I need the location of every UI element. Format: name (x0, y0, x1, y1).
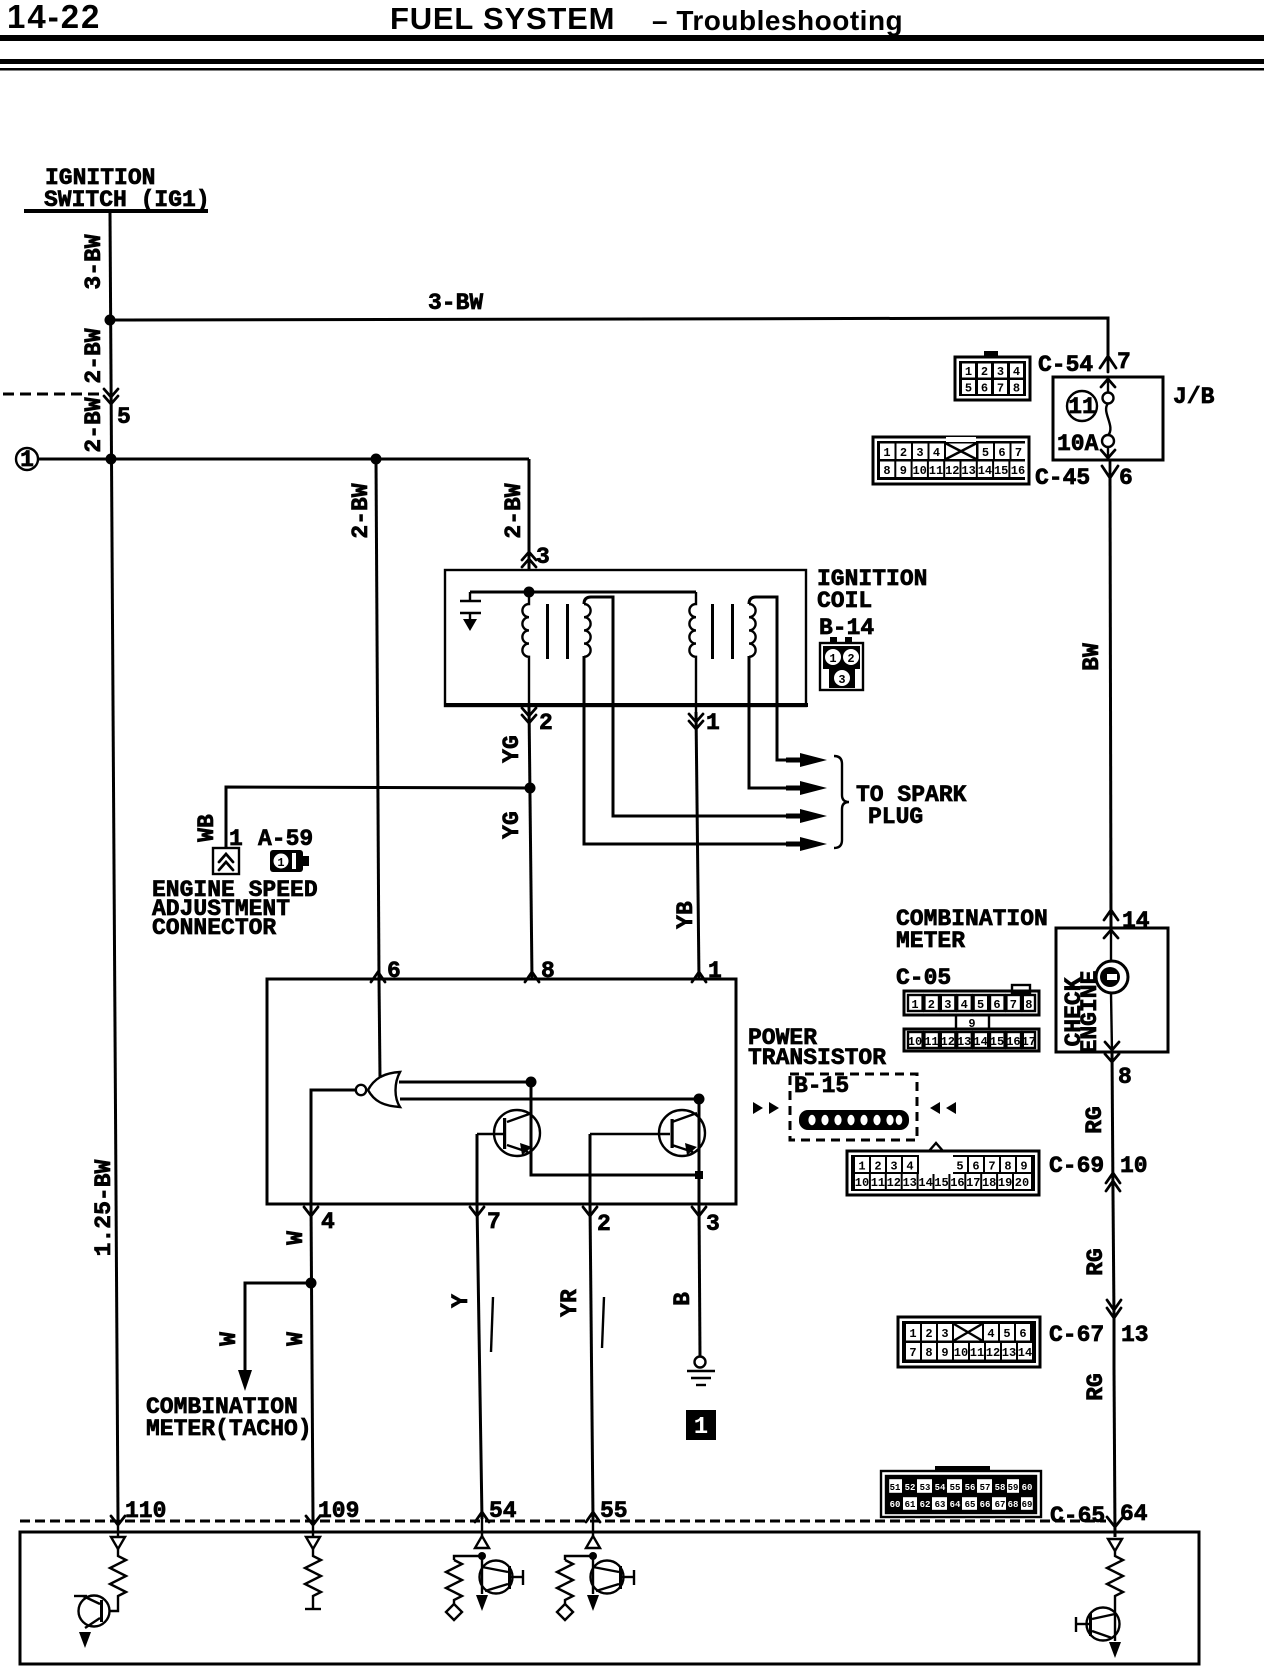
wire: pin 55 node to R4 (565, 1556, 593, 1560)
connector C-54 (955, 351, 1030, 400)
ECU pin 110 input: triangle (111, 1537, 125, 1549)
wire: YR from pin 2 to ECU pin 55 (590, 1204, 593, 1519)
svg-text:2-BW: 2-BW (348, 483, 374, 538)
svg-text:2: 2 (925, 1327, 932, 1341)
svg-text:11: 11 (871, 1176, 885, 1190)
transformer T1 core (546, 604, 549, 659)
svg-text:8: 8 (1118, 1064, 1132, 1090)
junction (2-BW branch) (371, 454, 382, 465)
fuse 11, 10A (1057, 377, 1115, 460)
wire: 2-BW down to ignition coil pin 3 (528, 459, 531, 570)
connector icon B-14 (820, 637, 863, 690)
wire: 2-BW branch down to power transistor pin 6 (376, 459, 379, 979)
svg-text:1: 1 (909, 1327, 916, 1341)
svg-text:METER(TACHO): METER(TACHO) (146, 1416, 312, 1442)
svg-text:15: 15 (994, 464, 1008, 478)
svg-text:FUEL SYSTEM: FUEL SYSTEM (390, 1, 615, 36)
svg-text:5: 5 (1003, 1327, 1010, 1341)
wire: RG from C-69 to C-67 (1113, 1195, 1114, 1317)
svg-text:64: 64 (1120, 1501, 1148, 1527)
tick (Y wire) (491, 1297, 493, 1352)
header rule 1 (0, 35, 1264, 41)
transistor Q1 (477, 1110, 540, 1156)
svg-text:1: 1 (694, 1414, 708, 1441)
svg-text:66: 66 (980, 1500, 991, 1510)
wire: common emitter to pin 3 (698, 1175, 701, 1204)
brace to spark plug (834, 756, 849, 848)
arrow to combination meter (tacho) (238, 1370, 252, 1391)
junction (left rail / 3-BW feed) (105, 315, 116, 326)
svg-text:BW: BW (1079, 643, 1105, 671)
connector icon B-15 (799, 1110, 909, 1130)
svg-text:3-BW: 3-BW (428, 290, 483, 316)
connector C-65 (881, 1466, 1041, 1517)
pin 2 marker (coil) (522, 708, 536, 716)
svg-text:61: 61 (905, 1500, 916, 1510)
svg-text:C-45: C-45 (1035, 465, 1090, 491)
junction (coil pin3 node) (524, 587, 535, 598)
logic gate U1 (NOR) (356, 1072, 400, 1107)
svg-text:17: 17 (966, 1176, 980, 1190)
wire: left rail 3-BW/2-BW/1.25-BW from ignition switch down to ECU pin 110 (110, 213, 118, 1519)
header rule 3 (0, 68, 1264, 71)
svg-text:C-65: C-65 (1050, 1503, 1105, 1529)
svg-text:1.25-BW: 1.25-BW (91, 1159, 117, 1256)
wire stub pin 109 (312, 1519, 314, 1537)
svg-text:10: 10 (855, 1176, 869, 1190)
svg-text:8: 8 (883, 464, 890, 478)
svg-text:64: 64 (950, 1500, 961, 1510)
svg-text:57: 57 (980, 1483, 991, 1493)
svg-text:B: B (670, 1292, 696, 1306)
svg-text:52: 52 (905, 1483, 916, 1493)
spark plug arrow 1 (800, 753, 827, 767)
svg-text:3: 3 (916, 446, 923, 460)
transformer T2 core (711, 604, 714, 659)
svg-text:2: 2 (928, 998, 935, 1012)
svg-text:6: 6 (1119, 465, 1133, 491)
node (1) terminal (16, 448, 38, 470)
svg-text:14: 14 (1122, 908, 1150, 934)
svg-text:1: 1 (277, 856, 284, 870)
power transistor unit box (267, 979, 736, 1204)
spark plug arrow 2 (800, 781, 827, 795)
wire stub pin 54 (481, 1519, 483, 1536)
wire: 2-BW horizontal from node 1 (38, 458, 529, 461)
svg-text:2: 2 (597, 1211, 611, 1237)
svg-text:16: 16 (950, 1176, 964, 1190)
wire: RG passing C-67 (1113, 1317, 1116, 1367)
svg-text:1: 1 (911, 998, 918, 1012)
svg-text:13: 13 (961, 464, 975, 478)
junction (W branch) (306, 1278, 317, 1289)
svg-text:A-59: A-59 (258, 826, 313, 852)
svg-text:7: 7 (909, 1346, 916, 1360)
wire: WB to engine speed adjustment connector (226, 787, 530, 848)
ignition switch (IG1) label (24, 165, 210, 213)
svg-text:2-BW: 2-BW (501, 483, 527, 538)
pin 10 marker (C-69) (1106, 1173, 1120, 1183)
svg-text:68: 68 (1008, 1500, 1019, 1510)
svg-text:2: 2 (900, 446, 907, 460)
pin 4 marker (bottom) (304, 1207, 318, 1216)
svg-text:6: 6 (387, 958, 401, 984)
svg-text:13: 13 (902, 1176, 916, 1190)
svg-text:11: 11 (1068, 394, 1096, 420)
svg-text:C-69: C-69 (1049, 1153, 1104, 1179)
svg-text:RG: RG (1082, 1106, 1108, 1134)
svg-text:5: 5 (117, 404, 131, 430)
dashed box B-15 (power transistor connector) (790, 1074, 917, 1140)
transformer T2 secondary winding (749, 604, 756, 657)
pin 55 marker (586, 1512, 600, 1522)
node 5 crossing marker (104, 389, 118, 397)
wire to Q3 (110, 1605, 118, 1611)
pin 2 marker (bottom) (583, 1207, 597, 1216)
wire: gate input A to YG (399, 1081, 531, 1084)
wire: lamp feed (1110, 928, 1112, 961)
wire: gate input B to YB (400, 1098, 699, 1101)
svg-text:13: 13 (957, 1035, 971, 1049)
junction (YG / engine speed connector tap) (525, 783, 536, 794)
pin 13 marker (C-67) (1107, 1300, 1121, 1310)
svg-text:7: 7 (487, 1209, 501, 1235)
pin 3 marker (bottom) (692, 1207, 706, 1216)
transistor Q3 (ECU, pin110) (74, 1596, 110, 1649)
svg-text:J/B: J/B (1173, 384, 1215, 410)
svg-text:14: 14 (1018, 1346, 1032, 1360)
svg-text:4: 4 (933, 446, 940, 460)
pin 3 marker (coil) (522, 552, 536, 560)
svg-text:B-15: B-15 (794, 1073, 849, 1099)
svg-text:1: 1 (858, 1160, 865, 1174)
ground (diamond, R3) (446, 1604, 462, 1620)
svg-text:55: 55 (950, 1483, 961, 1493)
svg-text:3-BW: 3-BW (81, 234, 107, 289)
svg-text:2: 2 (981, 365, 988, 379)
svg-text:8: 8 (1013, 382, 1020, 396)
svg-text:19: 19 (998, 1176, 1012, 1190)
svg-text:59: 59 (1008, 1483, 1019, 1493)
resistor R5 (1107, 1551, 1123, 1608)
svg-text:65: 65 (965, 1500, 976, 1510)
svg-text:12: 12 (887, 1176, 901, 1190)
chevron into meter box (1104, 930, 1118, 938)
transformer T1 secondary winding (584, 604, 591, 657)
wire stub pin 110 (117, 1519, 119, 1537)
resistor R3 (446, 1560, 462, 1604)
svg-text:10: 10 (954, 1346, 968, 1360)
svg-text:YB: YB (673, 901, 699, 929)
svg-text:PLUG: PLUG (868, 804, 923, 830)
combination meter box (1056, 928, 1168, 1052)
svg-text:METER: METER (896, 928, 965, 954)
header rule 2 (0, 59, 1264, 64)
check engine lamp (1096, 961, 1128, 993)
svg-text:5: 5 (965, 382, 972, 396)
svg-text:51: 51 (890, 1483, 901, 1493)
connector C-69 (847, 1143, 1039, 1195)
svg-text:6: 6 (1019, 1327, 1026, 1341)
svg-text:60: 60 (1022, 1483, 1033, 1493)
spark plug arrow 4 (800, 837, 827, 851)
wire: 3-BW horizontal feed to J/B (110, 318, 1108, 357)
svg-text:C-05: C-05 (896, 965, 951, 991)
svg-text:3: 3 (944, 998, 951, 1012)
junction block J/B box (1053, 377, 1163, 460)
svg-text:14: 14 (978, 464, 992, 478)
svg-text:C-67: C-67 (1049, 1322, 1104, 1348)
svg-text:3: 3 (941, 1327, 948, 1341)
svg-text:7: 7 (988, 1160, 995, 1174)
wire stub pin 55 (592, 1519, 594, 1536)
svg-text:69: 69 (1022, 1500, 1033, 1510)
resistor R1 (110, 1549, 126, 1605)
svg-text:C-54: C-54 (1038, 352, 1093, 378)
pin 6 marker (C-45) (1102, 466, 1118, 478)
pin 8 marker (top) (525, 972, 539, 982)
svg-text:W: W (216, 1332, 242, 1346)
pin 7 marker (bottom) (470, 1207, 484, 1216)
transistor Q5 (ECU, pin55) (587, 1556, 634, 1611)
pointer arrows left of B-15 (753, 1102, 763, 1114)
ECU pin 54 input: triangle (475, 1536, 489, 1548)
transistor Q4 (ECU, pin54) (476, 1556, 523, 1611)
connector C-45 (873, 437, 1029, 484)
resistor R2 (305, 1549, 321, 1608)
svg-text:10: 10 (1120, 1153, 1148, 1179)
svg-text:4: 4 (1013, 365, 1020, 379)
junction (emitter common, square) (695, 1171, 703, 1179)
svg-text:10: 10 (912, 464, 926, 478)
svg-text:4: 4 (906, 1160, 913, 1174)
svg-text:8: 8 (541, 958, 555, 984)
ignition coil box B-14 (445, 570, 806, 706)
dashed ECU boundary (20, 1520, 1106, 1523)
svg-text:YR: YR (557, 1289, 583, 1317)
svg-text:62: 62 (920, 1500, 931, 1510)
svg-text:7: 7 (1015, 446, 1022, 460)
svg-text:110: 110 (125, 1498, 166, 1524)
wire: RG from C-67 to ECU pin 64 (1114, 1367, 1115, 1537)
svg-text:6: 6 (981, 382, 988, 396)
svg-text:8: 8 (925, 1346, 932, 1360)
svg-text:53: 53 (920, 1483, 931, 1493)
svg-text:4: 4 (987, 1327, 994, 1341)
svg-text:55: 55 (600, 1498, 628, 1524)
transistor Q6 (ECU, pin64) (1076, 1608, 1121, 1659)
wire: lamp to meter pin 8 (1111, 993, 1112, 1052)
svg-text:12: 12 (945, 464, 959, 478)
pointer arrows right of B-15 (930, 1102, 940, 1114)
svg-text:W: W (283, 1231, 309, 1245)
svg-text:17: 17 (1022, 1035, 1036, 1049)
ECU pin 55 input: triangle (586, 1536, 600, 1548)
capacitor (coil condenser) (460, 592, 481, 631)
wire: W branch to combination meter tacho (245, 1283, 311, 1372)
svg-text:1: 1 (829, 652, 836, 666)
svg-text:8: 8 (1004, 1160, 1011, 1174)
svg-text:10: 10 (908, 1035, 922, 1049)
pin 6 marker (top) (371, 972, 385, 982)
svg-text:14: 14 (973, 1035, 987, 1049)
engine speed adjustment connector symbol (213, 848, 239, 874)
wire: pin 54 node to R3 (454, 1556, 482, 1560)
transistor Q2 (590, 1110, 705, 1156)
svg-text:7: 7 (1010, 998, 1017, 1012)
svg-text:2-BW: 2-BW (81, 328, 107, 383)
svg-text:2-BW: 2-BW (81, 397, 107, 452)
svg-text:15: 15 (934, 1176, 948, 1190)
ground (chassis) (687, 1357, 715, 1386)
spark plug arrow 3 (800, 809, 827, 823)
svg-text:3: 3 (838, 673, 845, 687)
svg-text:109: 109 (318, 1498, 359, 1524)
svg-text:2: 2 (847, 652, 854, 666)
svg-text:11: 11 (924, 1035, 938, 1049)
svg-text:– Troubleshooting: – Troubleshooting (652, 5, 903, 36)
svg-text:3: 3 (997, 365, 1004, 379)
ECU pin 64 input: triangle (1108, 1539, 1122, 1551)
svg-text:4: 4 (321, 1209, 335, 1235)
junction (left rail) (106, 454, 117, 465)
svg-text:RG: RG (1083, 1373, 1109, 1401)
svg-text:3: 3 (706, 1211, 720, 1237)
svg-text:63: 63 (935, 1500, 946, 1510)
wire: YB down to Q2 collector (698, 1099, 701, 1175)
svg-text:11: 11 (970, 1346, 984, 1360)
svg-text:ENGINE: ENGINE (1077, 971, 1103, 1054)
svg-text:5: 5 (956, 1160, 963, 1174)
svg-text:67: 67 (995, 1500, 1006, 1510)
svg-text:5: 5 (977, 998, 984, 1012)
svg-text:13: 13 (1121, 1322, 1149, 1348)
pin 1 marker (top) (692, 972, 706, 982)
wire: YB from coil pin 1 to power transistor pin 1 (696, 712, 699, 979)
wire: Y from pin 7 to ECU pin 54 (477, 1204, 482, 1519)
svg-text:14: 14 (918, 1176, 932, 1190)
svg-text:3: 3 (536, 544, 550, 570)
resistor R4 (557, 1560, 573, 1604)
junction (YB / gate input) (694, 1094, 705, 1105)
svg-text:54: 54 (935, 1483, 946, 1493)
svg-text:5: 5 (982, 446, 989, 460)
pin 14 marker (1104, 910, 1118, 920)
ECU box (20, 1532, 1199, 1664)
svg-text:12: 12 (941, 1035, 955, 1049)
svg-text:6: 6 (993, 998, 1000, 1012)
pin 109 marker (306, 1516, 320, 1525)
wire: gate output to pin 4 (311, 1090, 355, 1204)
chevron into J/B (1101, 379, 1115, 387)
svg-text:1: 1 (706, 710, 720, 736)
wire: B from pin 3 to ground (699, 1204, 700, 1357)
svg-text:YG: YG (499, 735, 525, 763)
chevron out of meter box (1105, 1042, 1119, 1050)
junction (YG / gate input) (526, 1077, 537, 1088)
dashed harness boundary (top left) (3, 393, 102, 396)
svg-text:58: 58 (995, 1483, 1006, 1493)
transformer T1 primary winding (522, 592, 529, 706)
ECU pin 109 input: triangle (306, 1537, 320, 1549)
wire: pin 6 feed to gate top (379, 979, 380, 1078)
svg-text:9: 9 (900, 464, 907, 478)
pin 110 marker (111, 1516, 125, 1525)
pin 7 marker (C-54) (1100, 356, 1116, 368)
svg-text:2: 2 (874, 1160, 881, 1174)
svg-text:11: 11 (929, 464, 943, 478)
tick (YR wire) (602, 1297, 604, 1348)
pin 64 marker (C-65) (1107, 1517, 1123, 1527)
svg-text:2: 2 (539, 710, 553, 736)
svg-text:13: 13 (1002, 1346, 1016, 1360)
ground (diamond, R4) (557, 1604, 573, 1620)
svg-text:RG: RG (1083, 1248, 1109, 1276)
svg-text:1: 1 (20, 447, 34, 473)
svg-text:18: 18 (982, 1176, 996, 1190)
pin 1 marker (coil) (689, 714, 703, 722)
svg-text:7: 7 (1117, 349, 1131, 375)
wire: pin 7 riser to Q1 base (476, 1134, 479, 1204)
connector C-67 (898, 1317, 1040, 1367)
junction (pin 55 node) (589, 1552, 597, 1560)
connector C-05 (904, 985, 1039, 1051)
wire: T2 secondary bottom to spark lead 2 (749, 656, 812, 788)
svg-text:1: 1 (965, 365, 972, 379)
svg-text:8: 8 (1025, 998, 1032, 1012)
svg-text:54: 54 (489, 1498, 517, 1524)
wire: BW from C-45 to combination meter pin 14 (1110, 478, 1111, 928)
svg-text:COIL: COIL (817, 588, 872, 614)
wire: T1 secondary top to spark lead 3 (584, 597, 812, 816)
connector icon A-59 (270, 850, 309, 872)
svg-text:9: 9 (1020, 1160, 1027, 1174)
svg-text:YG: YG (499, 811, 525, 839)
ground reference marker 1 (black square) (686, 1410, 716, 1440)
svg-text:12: 12 (986, 1346, 1000, 1360)
open end tick (R2) (305, 1608, 321, 1610)
svg-text:1: 1 (883, 446, 890, 460)
svg-text:56: 56 (965, 1483, 976, 1493)
svg-text:14-22: 14-22 (7, 0, 101, 35)
wire: YG down to Q1 collector (530, 1082, 533, 1175)
svg-text:7: 7 (997, 382, 1004, 396)
transformer T2 primary winding (689, 592, 696, 712)
svg-text:60: 60 (890, 1500, 901, 1510)
svg-text:W: W (283, 1332, 309, 1346)
svg-text:Y: Y (448, 1294, 474, 1308)
svg-text:1: 1 (708, 958, 722, 984)
wire: RG meter to C-69 (1112, 1052, 1113, 1195)
svg-text:TRANSISTOR: TRANSISTOR (748, 1045, 886, 1071)
svg-text:16: 16 (1006, 1035, 1020, 1049)
svg-text:6: 6 (972, 1160, 979, 1174)
svg-text:10A: 10A (1057, 431, 1099, 457)
svg-text:CONNECTOR: CONNECTOR (152, 915, 276, 941)
junction (pin 54 node) (478, 1552, 486, 1560)
svg-text:6: 6 (998, 446, 1005, 460)
svg-text:3: 3 (890, 1160, 897, 1174)
wire: T2 secondary top to spark lead 1 (749, 597, 812, 760)
svg-text:9: 9 (941, 1346, 948, 1360)
svg-text:20: 20 (1015, 1176, 1029, 1190)
wire: W from pin 4 to ECU pin 109 (311, 1204, 313, 1519)
svg-text:15: 15 (990, 1035, 1004, 1049)
wire: YG from coil pin 2 to power transistor pin 8 (529, 706, 532, 979)
wire: coil internal bus (470, 591, 696, 594)
svg-text:4: 4 (961, 998, 968, 1012)
wire: pin 2 riser to Q2 base (589, 1134, 592, 1204)
